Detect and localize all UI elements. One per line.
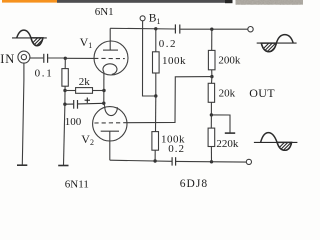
node 100k mid [154, 94, 157, 97]
svg-text:0.1: 0.1 [35, 68, 54, 80]
svg-text:6DJ8: 6DJ8 [180, 178, 208, 190]
svg-text:200k: 200k [218, 55, 241, 67]
resistor 100k bottom [152, 96, 159, 161]
triode V2 [93, 103, 127, 141]
svg-text:20k: 20k [219, 88, 236, 100]
node rail 100k [154, 27, 157, 30]
plus sign of capacitor 100 [85, 98, 90, 103]
svg-text:6N11: 6N11 [65, 178, 89, 190]
wire left column to ground [64, 104, 65, 165]
wire left column down [64, 91, 66, 105]
tap wire to V2 grid [127, 77, 212, 123]
top light textured bar [236, 0, 304, 5]
terminal B1 [140, 16, 145, 21]
terminal output bottom [246, 159, 251, 164]
V2 grid (dashed) [94, 122, 127, 124]
input waveform [12, 30, 56, 48]
node 2k left [63, 89, 66, 92]
svg-text:OUT: OUT [249, 86, 275, 100]
capacitor 0.2 bottom [172, 157, 176, 165]
V1 plate [103, 49, 118, 51]
triode V1 [94, 41, 128, 75]
V1 grid (dashed) [94, 57, 125, 59]
bottom rail left segment [110, 160, 172, 161]
svg-text:220k: 220k [216, 138, 239, 150]
wire node to V1 grid [65, 57, 94, 59]
node 200k/20k [210, 75, 213, 78]
top dark bar [57, 0, 233, 3]
svg-text:2k: 2k [79, 76, 91, 88]
svg-text:6N1: 6N1 [95, 6, 114, 18]
ground bar jack [17, 164, 27, 166]
wire V1 anode to rail [109, 28, 111, 50]
B+ rail right segment [180, 28, 248, 30]
capacitor 100 [65, 100, 104, 109]
grid resistor (unlabeled) [62, 58, 68, 90]
svg-text:0.2: 0.2 [159, 38, 177, 50]
resistor 2k [65, 88, 104, 94]
svg-text:100k: 100k [162, 55, 186, 67]
output waveform top [257, 35, 297, 54]
wire jack to C 0.1 [30, 57, 44, 59]
capacitor 0.2 top [175, 24, 179, 33]
node cathode junction [102, 102, 105, 105]
terminal output top [248, 27, 253, 32]
wire V2 anode to bottom rail [109, 131, 111, 160]
svg-text:IN: IN [0, 52, 15, 66]
resistor 20k [208, 77, 214, 115]
wire jack down [22, 63, 24, 165]
paper background [0, 0, 303, 191]
ground stub [211, 115, 230, 133]
node 100 cap left [63, 103, 66, 106]
V2 cathode hook [104, 103, 118, 116]
node 2k right [102, 89, 105, 92]
node bottom rail 100k [153, 159, 156, 162]
capacitor 0.1 [44, 54, 48, 63]
bottom rail right segment [176, 160, 246, 163]
wire V1 cathode down [103, 72, 105, 103]
node rail 200k [210, 28, 213, 31]
node grid [64, 57, 67, 60]
V1 cathode hook [103, 64, 117, 75]
wire B1 down [143, 21, 156, 96]
node 20k/220k [210, 113, 213, 116]
node bottom rail 220k [210, 160, 213, 163]
input jack [18, 51, 30, 63]
svg-text:100: 100 [65, 116, 82, 128]
resistor 100k top [153, 29, 160, 96]
wire C 0.1 to grid node [48, 57, 65, 59]
svg-text:0.2: 0.2 [168, 143, 185, 155]
V2 anode [101, 130, 119, 132]
output waveform bottom [254, 133, 302, 153]
B+ rail left segment [110, 27, 175, 30]
top orange bar [2, 0, 57, 3]
resistor 220k [208, 115, 215, 162]
ground bar right [225, 132, 235, 134]
resistor 200k [208, 29, 215, 76]
ground bar left column [58, 165, 68, 167]
